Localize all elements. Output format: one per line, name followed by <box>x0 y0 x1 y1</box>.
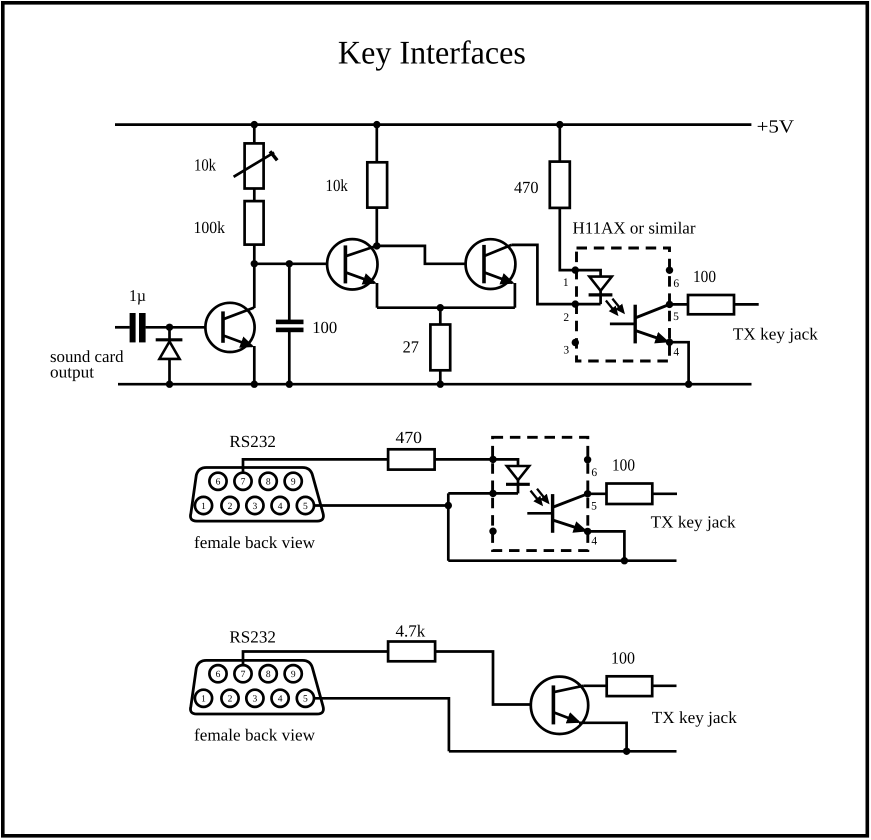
wire emitter bus <box>377 306 515 309</box>
svg-text:470: 470 <box>396 428 423 447</box>
node ground junction at Q1 <box>251 381 258 388</box>
J2 pin 2 <box>221 690 238 707</box>
wire Q3 emitter down <box>514 283 517 308</box>
svg-text:100: 100 <box>611 649 635 668</box>
svg-text:TX key jack: TX key jack <box>652 708 737 727</box>
J2 pin 8 <box>260 665 277 682</box>
wire R8 to TX key jack <box>652 492 677 495</box>
J2 pin 1 <box>195 690 212 707</box>
wire J1 pin 5 to node B <box>314 504 448 507</box>
U2 pin 4 dot <box>584 528 591 535</box>
J1 pin 2 <box>221 497 238 514</box>
svg-text:10k: 10k <box>194 156 216 175</box>
pin 1 dot <box>572 266 579 273</box>
J2 pin 6 <box>209 665 226 682</box>
U2 pin 5 dot <box>584 490 591 497</box>
wire Q1 emitter to ground <box>253 346 256 384</box>
optocoupler U2 package outline <box>493 437 588 550</box>
svg-text:RS232: RS232 <box>229 628 276 647</box>
svg-text:1: 1 <box>563 277 569 289</box>
capacitor C2 100 <box>276 320 304 333</box>
svg-text:100: 100 <box>693 267 716 286</box>
node junction at R5 top <box>437 304 444 311</box>
wire rail to R1 <box>253 125 256 144</box>
wire R3 to Q2 collector node <box>375 208 378 246</box>
svg-text:1µ: 1µ <box>129 286 146 305</box>
svg-text:3: 3 <box>253 502 258 512</box>
U2 pin 2 dot <box>489 490 496 497</box>
svg-text:3: 3 <box>563 344 569 356</box>
J1 pin 5 <box>297 497 314 514</box>
svg-text:1: 1 <box>201 502 206 512</box>
wire R1 to R2 <box>253 189 256 202</box>
wire Q3 collector to optocoupler pin 2 <box>511 245 600 304</box>
svg-text:100k: 100k <box>194 218 226 237</box>
J2 pin 4 <box>272 690 289 707</box>
svg-text:TX key jack: TX key jack <box>733 325 818 344</box>
node junction at D1 <box>166 324 173 331</box>
pin 3 dot <box>572 339 579 346</box>
svg-text:6: 6 <box>591 467 597 479</box>
wire Q2 collector to Q3 base <box>377 246 484 264</box>
svg-text:7: 7 <box>241 670 246 680</box>
svg-text:6: 6 <box>216 670 221 680</box>
node Q2 collector junction <box>373 242 380 249</box>
J2 pin 3 <box>246 690 263 707</box>
wire C2 bottom lead to ground <box>288 331 291 384</box>
node junction on rail at R3 <box>373 121 380 128</box>
J1 pin 1 <box>195 497 212 514</box>
LED light arrow 1 <box>606 301 617 314</box>
wire input to C1 <box>115 326 130 329</box>
wire bottom return (bottom) <box>449 750 677 753</box>
J2 pin 5 <box>297 690 314 707</box>
svg-text:10k: 10k <box>326 176 349 195</box>
svg-text:2: 2 <box>563 312 569 324</box>
LED D2 of U1 <box>589 277 613 305</box>
transistor Q3 <box>466 239 516 289</box>
svg-text:6: 6 <box>216 478 221 488</box>
J2 pin 7 <box>234 665 251 682</box>
svg-text:5: 5 <box>673 311 679 323</box>
resistor R2 100k <box>245 201 264 245</box>
svg-text:8: 8 <box>266 670 271 680</box>
resistor R8 100 <box>607 484 653 505</box>
U2 pin 1 dot <box>489 456 496 463</box>
wire rail to R3 <box>375 125 378 163</box>
transistor Q2 <box>327 239 377 289</box>
node B junction <box>445 502 452 509</box>
wire pin 1 to LED anode <box>575 270 600 277</box>
node junction on rail at R4 <box>556 121 563 128</box>
node ground junction at R5 <box>437 381 444 388</box>
wire R7 to optocoupler U2 pin 1 <box>435 458 493 461</box>
wire J2 pin 7 to R9 <box>243 652 388 666</box>
svg-text:9: 9 <box>291 478 296 488</box>
U2 LED light arrow 1 <box>531 491 542 504</box>
optocoupler U1 package outline <box>577 248 670 361</box>
node ground junction at pin 4 <box>685 381 692 388</box>
svg-text:100: 100 <box>312 318 337 337</box>
J1 pin 3 <box>246 497 263 514</box>
wire pin 5 to R6 <box>670 303 689 306</box>
wire C1 to Q1 base <box>146 326 223 329</box>
resistor R4 470 <box>550 162 570 208</box>
svg-text:female back view: female back view <box>194 726 316 745</box>
svg-text:2: 2 <box>228 695 233 705</box>
pin 4 dot <box>666 339 673 346</box>
phototransistor of U1 <box>610 304 670 343</box>
svg-text:H11AX or similar: H11AX or similar <box>573 219 696 238</box>
transistor Q4 <box>531 677 588 734</box>
wire bottom return (middle) <box>448 559 676 562</box>
wire +5V supply rail <box>115 123 751 126</box>
resistor R3 10k <box>367 162 387 207</box>
U2 LED light arrow 2 <box>537 489 548 502</box>
wire node B vertical <box>447 493 450 560</box>
wire Q4 emitter to return <box>579 723 627 752</box>
resistor R7 470 <box>388 449 435 469</box>
resistor R10 100 <box>607 676 653 696</box>
J2 pin 9 <box>285 665 302 682</box>
wire junction to D1 <box>168 327 171 341</box>
wire rail to R4 <box>558 125 561 162</box>
svg-text:RS232: RS232 <box>229 432 276 451</box>
svg-text:470: 470 <box>514 178 539 197</box>
wire U2 pin 2 lead <box>448 492 518 495</box>
node A junction <box>251 260 258 267</box>
svg-text:8: 8 <box>266 478 271 488</box>
node junction at return (bottom) <box>623 748 630 755</box>
J1 pin 7 <box>234 473 251 490</box>
LED of U2 <box>506 466 530 493</box>
wire bus to R5 <box>439 308 442 325</box>
pin 2 dot <box>572 300 579 307</box>
wire J1 pin 7 to R7 <box>243 459 388 473</box>
svg-text:4: 4 <box>278 502 283 512</box>
svg-text:2: 2 <box>228 502 233 512</box>
diode D1 <box>156 340 183 359</box>
wire pin 4 to ground <box>670 342 689 384</box>
svg-text:6: 6 <box>673 278 679 290</box>
J1 pin 9 <box>285 473 302 490</box>
svg-text:4: 4 <box>278 695 283 705</box>
U2 pin 3 dot <box>489 528 496 535</box>
wire node A down to Q1 collector <box>253 264 256 308</box>
phototransistor of U2 <box>527 494 587 533</box>
svg-text:4: 4 <box>591 536 597 548</box>
svg-text:9: 9 <box>291 670 296 680</box>
resistor R5 27 <box>430 325 450 371</box>
svg-text:TX key jack: TX key jack <box>651 513 736 532</box>
node ground junction at C2 <box>286 381 293 388</box>
svg-text:5: 5 <box>591 501 597 513</box>
node junction on rail at R1 <box>251 121 258 128</box>
wire R6 to TX key jack <box>734 303 759 306</box>
pin 6 dot <box>666 267 673 274</box>
wire Q2 emitter down <box>376 283 379 308</box>
svg-text:4.7k: 4.7k <box>396 621 426 640</box>
svg-text:+5V: +5V <box>757 117 795 137</box>
svg-text:7: 7 <box>241 478 246 488</box>
node ground junction at D1 <box>166 381 173 388</box>
pin 5 dot <box>666 301 673 308</box>
wire J2 pin 5 to return <box>314 698 449 751</box>
wire U2 pin 5 to R8 <box>588 492 607 495</box>
capacitor C1 1u <box>130 313 146 342</box>
wire R10 to TX key jack <box>652 684 676 687</box>
svg-text:100: 100 <box>612 455 635 474</box>
J1 pin 4 <box>272 497 289 514</box>
wire node A to Q2 base <box>254 262 345 265</box>
node junction at return (middle) <box>621 557 628 564</box>
LED light arrow 2 <box>612 299 623 312</box>
J1 pin 8 <box>260 473 277 490</box>
connector J1 DB9 outline <box>190 468 323 522</box>
svg-text:4: 4 <box>673 346 679 358</box>
wire Q4 collector to R10 <box>583 684 606 687</box>
svg-text:27: 27 <box>403 337 420 356</box>
resistor R9 4.7k <box>388 642 435 662</box>
svg-text:1: 1 <box>201 695 206 705</box>
wire R9 to Q4 base <box>435 652 553 705</box>
svg-text:female back view: female back view <box>194 533 316 552</box>
resistor R1 10k variable <box>234 143 278 188</box>
wire ground rail <box>118 383 752 386</box>
svg-text:5: 5 <box>303 695 308 705</box>
J1 pin 6 <box>209 473 226 490</box>
resistor R6 100 <box>688 295 734 314</box>
wire R4 to optocoupler pin 1 <box>560 208 576 270</box>
wire U2 pin 1 to LED anode <box>493 459 518 466</box>
wire C2 top lead <box>288 264 291 321</box>
svg-text:output: output <box>50 362 94 381</box>
wire R5 to ground <box>439 370 442 384</box>
node junction at C2 top <box>286 260 293 267</box>
svg-text:Key Interfaces: Key Interfaces <box>338 36 526 72</box>
wire R2 to node A <box>253 245 256 264</box>
svg-text:5: 5 <box>303 502 308 512</box>
transistor Q1 <box>205 303 254 352</box>
wire U2 pin 4 to return <box>588 531 625 560</box>
U2 pin 6 dot <box>584 456 591 463</box>
svg-text:3: 3 <box>253 695 258 705</box>
connector J2 DB9 outline <box>190 660 323 714</box>
wire D1 to ground <box>168 359 171 384</box>
